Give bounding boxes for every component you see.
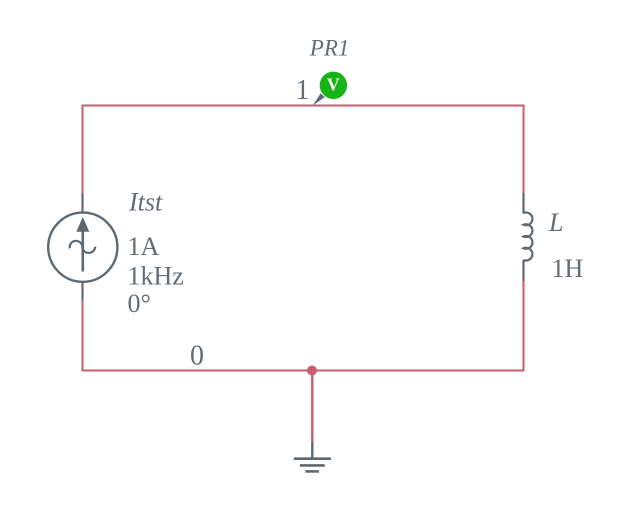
Itst AC sine squiggle bbox=[70, 241, 96, 253]
svg-text:0: 0 bbox=[190, 341, 204, 372]
svg-text:L: L bbox=[548, 208, 563, 237]
svg-text:1A: 1A bbox=[128, 232, 160, 261]
probe PR1 body bbox=[320, 72, 347, 99]
svg-text:1H: 1H bbox=[552, 254, 584, 283]
Itst arrow shaft bbox=[82, 231, 85, 272]
current source Itst (AC) bbox=[48, 193, 117, 300]
L coil windings bbox=[524, 212, 533, 260]
svg-text:1kHz: 1kHz bbox=[128, 262, 184, 291]
Itst circle body bbox=[48, 213, 117, 282]
ground bar 2 bbox=[300, 464, 325, 467]
wire ground stub bbox=[311, 371, 313, 443]
wire right lower bbox=[523, 281, 525, 372]
current source arrow head bbox=[76, 217, 89, 232]
L pin 2 (bottom terminal) bbox=[522, 260, 524, 281]
junction dot node 0 bbox=[307, 366, 317, 376]
probe PR1 needle bbox=[313, 93, 325, 105]
wire left upper bbox=[82, 105, 84, 194]
L pin 1 (top terminal) bbox=[522, 193, 524, 214]
ground bar 3 bbox=[305, 470, 319, 473]
svg-text:0°: 0° bbox=[128, 289, 151, 318]
wire bottom (node 0) bbox=[82, 370, 525, 372]
wire right upper bbox=[523, 105, 525, 194]
ground bar 1 bbox=[294, 457, 331, 460]
svg-text:1: 1 bbox=[296, 75, 310, 106]
ground stub gray bbox=[311, 442, 313, 459]
Itst pin 2 (bottom terminal) bbox=[81, 282, 83, 300]
svg-text:V: V bbox=[327, 75, 340, 95]
inductor L bbox=[524, 193, 533, 281]
svg-text:Itst: Itst bbox=[128, 188, 163, 217]
svg-text:PR1: PR1 bbox=[309, 36, 350, 61]
wire left lower bbox=[82, 300, 84, 372]
wire top (node 1) bbox=[82, 105, 525, 107]
Itst pin 1 (top terminal) bbox=[81, 193, 83, 213]
